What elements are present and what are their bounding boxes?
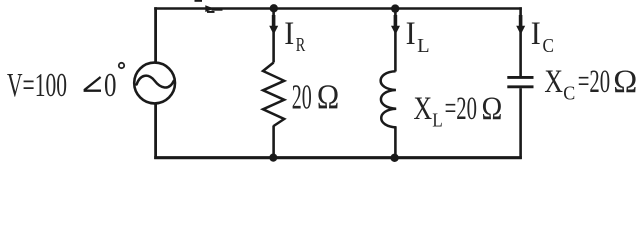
svg-text:I: I — [531, 16, 541, 52]
svg-text:X: X — [414, 91, 433, 127]
wire top horizontal — [154, 7, 522, 10]
label V=100 — [7, 67, 67, 104]
svg-text:I: I — [284, 16, 294, 52]
wire inductor branch upper — [394, 8, 397, 72]
svg-text:20: 20 — [292, 78, 312, 117]
label IL — [406, 16, 430, 57]
label IR — [284, 16, 305, 56]
label 20Ω (resistor) — [292, 78, 339, 117]
svg-text:R: R — [296, 34, 306, 56]
resistor R 20Ω zigzag — [263, 63, 284, 127]
wire resistor branch upper — [272, 8, 275, 63]
degree symbol — [119, 63, 124, 68]
AC source V=100∠0° — [134, 63, 175, 104]
svg-text:C: C — [563, 83, 575, 105]
arrow IL down — [391, 15, 400, 35]
svg-text:I: I — [406, 16, 416, 52]
node dot top inductor branch — [391, 4, 399, 12]
inductor L XL=20Ω coil — [381, 71, 397, 127]
svg-text:0: 0 — [104, 67, 117, 104]
svg-text:X: X — [544, 64, 563, 100]
label XC=20Ω — [544, 64, 637, 105]
svg-text:Ω: Ω — [613, 64, 637, 100]
current arrow I on top wire — [205, 5, 222, 13]
label 0 (phase) — [104, 67, 117, 104]
svg-text:L: L — [417, 35, 430, 57]
label XL=20Ω — [414, 91, 503, 132]
wire capacitor branch upper (right side) — [519, 7, 522, 76]
angle symbol ∠ — [84, 77, 101, 91]
arrow IC down — [516, 15, 525, 35]
svg-text:Ω: Ω — [317, 78, 339, 117]
wire bottom horizontal — [154, 156, 522, 159]
wire left vertical upper — [154, 7, 157, 63]
node dot bottom resistor branch — [269, 154, 277, 162]
svg-text:=20: =20 — [445, 91, 477, 127]
label IC — [531, 16, 554, 57]
svg-text:Ω: Ω — [482, 91, 503, 127]
stray mark top edge — [195, 0, 203, 2]
arrow IR down — [269, 15, 278, 35]
wire resistor branch lower — [272, 126, 275, 160]
capacitor C XC=20Ω plates — [507, 77, 533, 86]
svg-text:=20: =20 — [578, 64, 610, 100]
wire capacitor branch lower — [519, 88, 522, 159]
wire inductor branch lower — [394, 127, 397, 159]
svg-text:L: L — [432, 110, 443, 132]
node dot bottom inductor branch — [390, 154, 398, 162]
svg-text:C: C — [543, 35, 555, 57]
svg-text:V=100: V=100 — [7, 67, 67, 104]
node dot top resistor branch — [270, 4, 278, 12]
wire left vertical lower — [154, 103, 157, 159]
